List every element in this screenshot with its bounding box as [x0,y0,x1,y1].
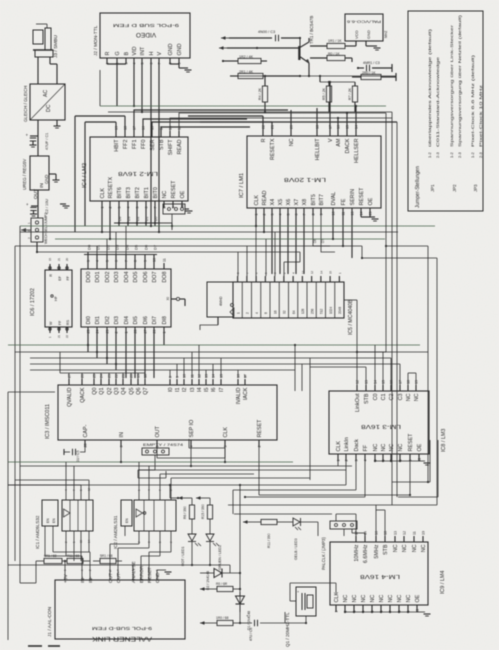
svg-text:X5: X5 [278,199,284,206]
svg-text:8: 8 [134,260,138,262]
label D1 / 1N4148 [247,611,251,630]
svg-text:4MR1 / C3: 4MR1 / C3 [363,61,380,65]
svg-text:21: 21 [122,374,126,378]
svg-text:Pixel-Clock 10 MHz: Pixel-Clock 10 MHz [478,85,483,147]
svg-text:IACK: IACK [243,387,249,400]
svg-text:9: 9 [320,214,324,216]
svg-text:NC: NC [381,444,387,452]
label J3 / SMBU [53,35,59,58]
label GELB / LED3 [294,538,298,560]
IC1 bottom pins [45,526,91,543]
svg-text:NC: NC [406,393,412,401]
svg-text:OUT-: OUT- [116,571,122,583]
capacitor C4 with terminal [357,64,392,72]
svg-text:10: 10 [153,258,157,262]
svg-text:NC: NC [379,595,385,603]
left vertical wires [8,226,55,640]
ground right of C2 [60,204,70,208]
+5V arrow at JP2 [21,228,31,232]
svg-text:7: 7 [125,260,129,262]
wire regulator to jumper JP2 [37,190,39,218]
label 1R2 / 4K [239,55,254,59]
svg-text:DO7: DO7 [152,272,158,283]
wires IC6 DI pins down to IC3 [88,333,164,378]
svg-text:VID: VID [132,46,138,55]
svg-text:R0 / 6R: R0 / 6R [216,582,228,586]
svg-text:R: R [49,274,53,277]
svg-text:DI0: DI0 [86,316,92,324]
svg-text:25: 25 [93,374,97,378]
svg-text:13: 13 [365,380,369,384]
bus wire y352 [15,351,428,353]
svg-text:RESETX: RESETX [270,138,276,160]
svg-text:SER: SER [150,139,156,150]
svg-text:+: + [297,590,299,594]
svg-text:I2: I2 [182,388,188,393]
svg-text:4N00 / C3: 4N00 / C3 [258,30,275,34]
svg-text:GRUEN / LED2: GRUEN / LED2 [218,545,222,570]
svg-text:J3 / SMBU: J3 / SMBU [53,35,59,58]
IC3 top pins Q side [67,374,149,407]
svg-text:GELB / LED3: GELB / LED3 [294,538,298,560]
LM4 NC ground tie [344,611,431,616]
svg-text:DO8: DO8 [162,272,168,283]
svg-text:AM: AM [336,138,342,147]
svg-text:X7: X7 [294,199,300,206]
svg-text:15: 15 [329,270,333,274]
svg-text:1: 1 [163,332,167,334]
svg-text:HBIT: HBIT [114,139,120,152]
label 47U / C6 [249,628,253,641]
wire BIT5 BIT7 right [313,215,335,252]
oscillator Q1 / 20MHZ-TTL [290,587,316,616]
svg-text:21: 21 [271,125,275,129]
connector J1 / AAL-CON (AALENER LINK) [55,580,185,639]
svg-text:15: 15 [346,125,350,129]
svg-text:14: 14 [374,380,378,384]
svg-text:4MHD: 4MHD [219,296,223,306]
svg-text:15: 15 [220,374,224,378]
svg-text:1U / C5: 1U / C5 [76,450,80,462]
J2 pins R G B VID INT H V GND GND [105,43,183,64]
svg-text:Dack: Dack [354,439,360,452]
svg-text:6: 6 [115,260,119,262]
wire RESET down [258,447,260,495]
svg-text:V: V [157,52,163,56]
svg-text:20: 20 [65,257,69,261]
svg-text:GLEICH / GLEICH: GLEICH / GLEICH [23,86,28,122]
IC4 bottom pins [100,177,186,209]
svg-text:JP2: JP2 [452,184,457,192]
label 47UF / C1 [45,133,49,150]
svg-text:17: 17 [355,531,359,535]
svg-text:Q4: Q4 [121,388,127,395]
wire VCO pin [345,41,356,46]
svg-text:BIT6: BIT6 [117,187,123,198]
label at VCO [384,31,388,38]
IC6 HF marker [51,295,58,301]
svg-text:OUT: OUT [155,425,161,437]
svg-text:RESET: RESET [359,187,365,206]
IC6 DI pins [86,316,168,333]
svg-text:2: 2 [109,207,113,209]
connector J3 / SMBU (power jack) [33,24,53,57]
label IC3 / IMSC011 [45,404,51,439]
capacitor C5 at CAP- [64,447,85,455]
svg-text:IVALID: IVALID [236,387,242,404]
svg-text:NC: NC [373,444,379,452]
svg-text:B: B [124,52,130,56]
svg-text:24: 24 [96,330,100,334]
label C2 / 10UF [45,199,49,214]
svg-text:10MHz: 10MHz [354,544,360,561]
svg-text:3: 3 [224,446,228,448]
svg-text:17: 17 [329,125,333,129]
LM4 bottom pins [334,592,421,613]
label R0 / 1K [328,52,340,56]
svg-text:ANALYSE: ANALYSE [131,561,137,583]
comb wire at IC4 D labels [114,222,172,230]
svg-text:NC: NC [393,544,399,552]
svg-text:64: 64 [292,310,296,314]
svg-text:5: 5 [136,207,140,209]
label R6 / 390 [183,506,187,519]
svg-text:PALCLK / (JMP3): PALCLK / (JMP3) [321,537,326,570]
svg-text:FE: FE [341,198,347,205]
svg-text:MHZ: MHZ [384,31,388,38]
J1 pins [63,561,161,583]
svg-text:DI4: DI4 [124,316,130,324]
jumper JMP3 PALCLK [330,514,365,536]
receiver IC1 / AM26LS32 [62,500,93,531]
svg-text:6.6MHz: 6.6MHz [363,544,369,563]
svg-text:2R0 / 1K: 2R0 / 1K [362,71,376,75]
corner registration mark [28,645,60,647]
label ROT / LED1 [181,546,185,566]
svg-text:1R2 / 4K: 1R2 / 4K [239,55,254,59]
IC2 top pins [137,489,173,500]
wire +5V loop at LEDs [8,484,346,573]
svg-text:15: 15 [48,257,52,261]
svg-text:Q6: Q6 [136,388,142,395]
IC7 bottom pins [254,187,374,216]
svg-text:22: 22 [115,374,119,378]
svg-text:HELLSER: HELLSER [354,138,360,163]
svg-text:26: 26 [153,330,157,334]
LED1 rot [188,519,201,565]
svg-text:X8: X8 [302,199,308,206]
svg-text:15: 15 [151,126,155,130]
svg-text:DO4: DO4 [124,272,130,283]
wire GND tie and ground [170,64,192,72]
svg-text:1: 1 [255,214,259,216]
wire bus y82 right [319,75,355,82]
svg-text:LM-3 16V8: LM-3 16V8 [361,423,401,429]
svg-text:DI3: DI3 [114,316,120,324]
wires IC7 bottom down [256,215,352,274]
svg-text:5: 5 [287,214,291,216]
resistor R15 / 390 vertical [207,505,212,519]
diode D1 1N4148 vertical [236,592,245,612]
svg-text:NC: NC [361,595,367,603]
svg-text:DO1: DO1 [95,272,101,283]
svg-text:CLK: CLK [100,188,106,199]
svg-text:19: 19 [422,531,426,535]
label 2R1 / 4K [239,70,254,74]
label J1 / AAL-CON [47,606,53,637]
PAL IC4 / LM2 (LM-2 16V8) [90,137,188,201]
rectifier GLEICH / GLEICH (AC/DC) [30,84,65,120]
label PALCLK / (JMP3) [321,537,326,570]
IC1 top pins [64,487,91,500]
transistor TR1 / BC547B [299,38,310,77]
bus wire y345 [8,344,420,346]
IC7 top pins [261,125,360,163]
svg-text:16: 16 [337,125,341,129]
svg-text:NC: NC [343,595,349,603]
FIFO IC6 / 17202 control section [45,270,72,327]
svg-text:2-3: 2-3 [457,151,462,158]
svg-text:READ: READ [262,190,268,205]
LM3 top pins [355,380,420,412]
svg-text:VIDEO: VIDEO [136,31,156,38]
svg-text:DO3: DO3 [114,272,120,283]
svg-text:1: 1 [236,312,240,314]
svg-text:TR1 / BC547B: TR1 / BC547B [309,16,314,44]
label IC1 / AM26LS32 [35,515,40,549]
wire R G B tie [107,64,126,106]
label R4 / 2K [258,87,262,100]
resistor R11 / 390 with arrow [243,519,293,524]
net labels D6 D3 D2 D1 D0 under IC4 [118,217,158,221]
svg-text:IC9 / LM4: IC9 / LM4 [440,571,446,594]
label J2 / MON-TTL [93,25,99,56]
svg-text:10: 10 [332,212,336,216]
bus wire y226 [20,225,435,227]
svg-text:R4 / 2K: R4 / 2K [258,87,262,100]
bus wire y470 [138,469,346,471]
svg-text:RESETX: RESETX [108,177,114,199]
svg-text:1-2: 1-2 [470,151,475,158]
svg-text:17: 17 [399,380,403,384]
svg-text:10: 10 [183,374,187,378]
svg-text:RESET: RESET [257,419,263,438]
label 4MR1 / C3 [363,61,380,65]
wire diode junction vertical [239,573,241,624]
svg-text:11: 11 [413,531,417,535]
svg-text:32: 32 [283,310,287,314]
svg-text:QVALID: QVALID [67,387,73,406]
wire emitter bus y76 [230,75,396,77]
svg-text:19: 19 [115,126,119,130]
voltage regulator UREG / REG5V [30,156,49,199]
LED3 gelb [293,518,318,536]
svg-text:NC: NC [388,595,394,603]
comb wire above IC6 DO pins [84,254,157,256]
wires IC4 top to routing [75,110,288,232]
capacitor C2 10UF [26,202,38,216]
resistor R2 4K7 horizontal [222,58,267,63]
LM4 top pins [354,531,427,563]
svg-text:16: 16 [375,531,379,535]
counter IC5 / MC4040B input cell [200,282,234,330]
bus wire y505 y514 [228,505,437,514]
svg-text:7: 7 [303,214,307,216]
label GLEICH / GLEICH [23,86,28,122]
svg-text:G: G [115,51,121,55]
svg-text:DI2: DI2 [105,316,111,324]
wire LED cathodes [8,564,230,573]
wire video line y112 [108,111,392,113]
svg-text:D2: D2 [105,244,110,250]
bus wire y370 [30,369,295,371]
svg-text:9-POL SUB-D FEM: 9-POL SUB-D FEM [92,625,152,631]
wires DO bus joins [97,226,126,254]
bus above IC3 Q pins [60,352,145,373]
svg-text:Jumper-Stellungen: Jumper-Stellungen [415,166,421,208]
svg-text:18: 18 [316,125,320,129]
svg-text:BIT3: BIT3 [126,187,132,198]
svg-text:STB: STB [383,544,389,555]
svg-text:NC: NC [370,595,376,603]
svg-text:C1: C1 [381,394,387,401]
wire JP2 to +5V bus [36,242,38,252]
svg-text:SERIN: SERIN [350,189,356,206]
IC3 top pins I side [168,374,249,404]
svg-text:X6: X6 [286,199,292,206]
svg-text:GND: GND [168,43,174,55]
wire rectifier to regulator [37,120,39,156]
svg-text:D5: D5 [133,244,138,250]
svg-text:BIT2: BIT2 [135,187,141,198]
svg-text:AALENER LINK: AALENER LINK [91,635,152,642]
svg-text:EF: EF [58,275,62,280]
bus wire y252 +5V [36,251,300,253]
svg-text:2: 2 [263,214,267,216]
svg-text:I0: I0 [168,388,174,393]
svg-text:2R1 / 4K: 2R1 / 4K [239,70,254,74]
svg-text:4: 4 [96,260,100,262]
svg-text:12: 12 [310,270,314,274]
PAL IC7 / LM1 (LM-1 20V8) [247,136,381,208]
svg-text:7: 7 [158,63,162,65]
svg-text:AC: AC [43,90,49,97]
svg-text:22: 22 [65,334,69,338]
svg-text:EN: EN [125,518,129,523]
svg-text:D3: D3 [114,244,119,250]
svg-text:5R1 / 68: 5R1 / 68 [100,554,113,558]
wire right corner to LM4 [259,440,438,505]
resistor row R at J1 [36,558,90,563]
svg-text:14: 14 [355,125,359,129]
svg-text:QACK: QACK [80,387,86,403]
svg-text:4: 4 [190,446,194,448]
svg-text:DO5: DO5 [133,272,139,283]
svg-text:WECHSEL /JUMP2: WECHSEL /JUMP2 [44,213,48,244]
wires IC3 Q pins up [69,373,145,379]
IC5 divider cells [236,270,342,318]
resistor R9 1K horizontal [310,55,352,62]
wires LM4 top up [336,505,385,536]
label UREG / REG5V [22,159,27,190]
svg-text:4: 4 [279,214,283,216]
svg-text:1-2: 1-2 [427,151,432,158]
svg-text:NC: NC [406,595,412,603]
svg-text:BIT7: BIT7 [319,194,325,205]
svg-text:PAL/VCO-6.6: PAL/VCO-6.6 [347,20,381,24]
svg-text:1-2: 1-2 [449,151,454,158]
connector J2 / MON-TTL (VIDEO 9-pol sub-d) [100,13,190,58]
jumper JMP ACK with label EMPTY / 74S74 [142,443,183,455]
resistor R6 2K vertical right [352,82,357,112]
svg-text:IC5 / MC4040B: IC5 / MC4040B [348,299,354,335]
svg-text:16: 16 [142,126,146,130]
svg-text:R0 / 1K: R0 / 1K [328,52,340,56]
wires J1 pins up [45,536,171,573]
svg-text:11: 11 [191,374,195,378]
net labels D6 D7 at IC7 [313,239,325,243]
link adapter IC3 / IMSC011 [58,385,277,440]
wires IC1 IC2 tops up [8,462,310,493]
svg-text:17: 17 [133,126,137,130]
driver IC2 / AM26LS31 [134,500,176,531]
svg-text:2: 2 [345,460,349,462]
svg-text:9-POL SUB D FEM: 9-POL SUB D FEM [113,22,179,28]
svg-text:R6 / 390: R6 / 390 [183,506,187,519]
svg-text:IN-: IN- [80,576,86,583]
svg-text:RS: RS [66,319,70,325]
svg-text:4: 4 [127,207,131,209]
svg-text:IC7 / LM1: IC7 / LM1 [239,173,245,198]
capacitor C3 4N7 at transistor [221,35,301,41]
svg-text:NC: NC [162,191,168,199]
svg-text:+: + [26,133,29,138]
svg-text:C3: C3 [398,394,404,401]
verticals right of IC5 to LM3 [295,345,310,480]
wire base line y48 [219,46,299,50]
wires LM3 top up [302,345,416,385]
svg-text:11: 11 [342,212,346,216]
svg-text:LinkOut: LinkOut [355,393,361,412]
svg-text:DI7: DI7 [152,316,158,324]
svg-text:H: H [149,52,155,56]
svg-text:R7 / 2K: R7 / 2K [348,87,352,100]
svg-text:18: 18 [407,380,411,384]
svg-text:GND: GND [44,175,49,184]
wire INT down [141,64,143,113]
svg-text:23: 23 [106,330,110,334]
svg-text:8: 8 [312,214,316,216]
svg-text:DO2: DO2 [105,272,111,283]
svg-text:14: 14 [364,531,368,535]
svg-text:27: 27 [68,374,72,378]
svg-text:NC: NC [421,544,427,552]
svg-text:25: 25 [87,330,91,334]
wires IC4 data pins down to bus [118,208,120,226]
IC4 top pins [114,126,183,155]
svg-text:CLK: CLK [336,441,342,452]
wire right vertical x394 [392,112,430,482]
svg-text:Q3: Q3 [114,388,120,395]
table header Jumper-Stellungen [415,166,421,208]
svg-text:FF1: FF1 [132,140,138,150]
svg-text:DI6: DI6 [143,316,149,324]
svg-text:19: 19 [415,380,419,384]
svg-text:D6: D6 [143,244,148,250]
svg-text:BIT5: BIT5 [311,194,317,205]
svg-text:I5: I5 [204,388,210,393]
resistor R10 with terminal [352,73,396,81]
